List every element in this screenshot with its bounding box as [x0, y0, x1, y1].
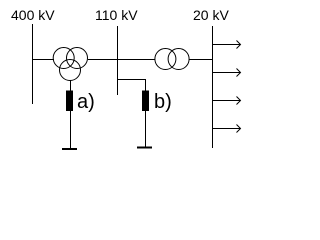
svg-text:110 kV: 110 kV [95, 7, 138, 23]
svg-text:400 kV: 400 kV [11, 7, 55, 23]
wire arrester a to earth [70, 111, 72, 149]
svg-text:a): a) [77, 91, 95, 113]
wire arrester b to earth [145, 111, 147, 148]
wire 110kV busbar branch to arrester b [117, 80, 146, 92]
arrester b (filled rectangle) [142, 91, 149, 112]
feeder arrow 3 [212, 97, 241, 105]
svg-text:20 kV: 20 kV [193, 7, 229, 23]
earth electrode b [137, 147, 152, 149]
busbar 20 kV [212, 26, 214, 148]
svg-text:b): b) [154, 91, 172, 113]
wire 400kV busbar to transformer T1 [32, 59, 54, 61]
feeder arrow 4 [212, 125, 241, 133]
transformer T1 three-winding (400/110 kV) [53, 48, 87, 81]
wire T1 tertiary down to arrester a [70, 81, 72, 92]
arrester a (filled rectangle) [66, 91, 73, 112]
feeder arrow 2 [212, 69, 241, 77]
earth electrode a [62, 148, 77, 150]
wire T2 to 20kV busbar [189, 59, 212, 61]
feeder arrow 1 [212, 41, 241, 49]
busbar 400 kV [32, 24, 34, 104]
transformer T2 two-winding (110/20 kV) [155, 49, 189, 70]
busbar 110 kV [117, 26, 119, 95]
wire T1 to 110kV busbar to transformer T2 [88, 59, 155, 61]
